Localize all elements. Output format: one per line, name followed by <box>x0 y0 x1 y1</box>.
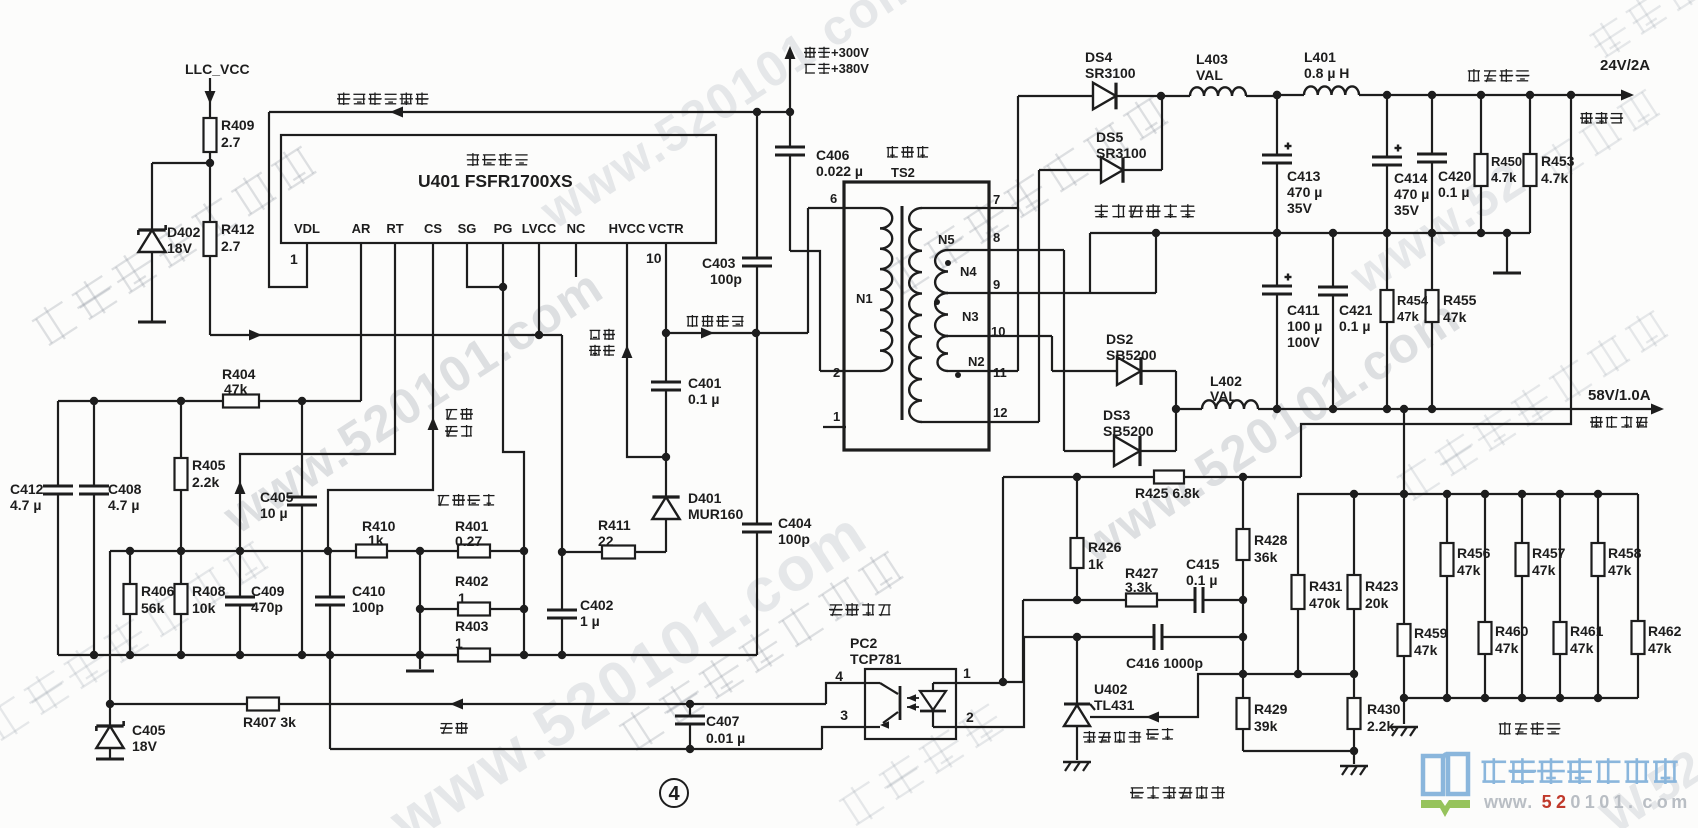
capacitor C403 <box>742 112 772 333</box>
svg-text:PG: PG <box>494 221 513 236</box>
label C416 1000p <box>1126 655 1203 671</box>
svg-text:100p: 100p <box>710 271 742 287</box>
label C415 0.1µ <box>1186 556 1220 588</box>
label N3 <box>934 299 979 324</box>
label 去主板 <box>1580 112 1623 124</box>
svg-text:N5: N5 <box>938 232 955 247</box>
wire 稳压 row to PC2 pin4 <box>826 683 865 704</box>
transformer secondary winding N5 <box>909 208 922 422</box>
node rail R403 left <box>416 651 424 659</box>
capacitor C416 <box>1154 624 1243 650</box>
svg-text:1: 1 <box>833 409 840 424</box>
node 58V R455 <box>1428 405 1436 413</box>
svg-text:R458: R458 <box>1608 545 1642 561</box>
svg-text:R407 3k: R407 3k <box>243 714 296 730</box>
svg-text:C412: C412 <box>10 481 44 497</box>
wire RT pin drop and loop <box>235 243 395 551</box>
label C420 0.1µ <box>1438 168 1472 200</box>
capacitor C412 <box>43 401 73 655</box>
arrow 58V output <box>1651 404 1664 415</box>
svg-text:0.1 µ: 0.1 µ <box>1186 572 1217 588</box>
svg-text:39k: 39k <box>1254 718 1278 734</box>
wire sense column to 稳压 row <box>109 551 111 704</box>
svg-text:DS5: DS5 <box>1096 129 1123 145</box>
diode DS3 <box>1064 436 1176 466</box>
wire 取样 row <box>1090 674 1354 722</box>
resistor R406 <box>124 551 137 655</box>
shunt regulator U402 TL431 <box>1064 637 1095 760</box>
node junction R409/R412/D402 <box>206 159 214 167</box>
resistor R426 <box>1071 477 1084 600</box>
svg-text:22: 22 <box>598 533 614 549</box>
node 58V C411 <box>1273 405 1281 413</box>
pin label 9 <box>993 277 1000 292</box>
label 待机+300V 开机+380V <box>804 45 869 76</box>
node R428 top <box>1239 473 1247 481</box>
wire R427 row left <box>1023 599 1126 601</box>
node grid bottom R458 <box>1594 694 1602 702</box>
pin label 10 <box>991 324 1005 339</box>
resistor R430 <box>1348 674 1361 751</box>
svg-text:0.27: 0.27 <box>455 533 482 549</box>
label R409 2.7 <box>221 117 255 150</box>
label 稳压光耦 <box>829 603 891 616</box>
wire mid rail left riser <box>1089 233 1091 293</box>
node mid rail C413 <box>1273 229 1281 237</box>
node C420 top <box>1428 91 1436 99</box>
capacitor C407 <box>675 704 705 749</box>
svg-text:R428: R428 <box>1254 532 1288 548</box>
svg-text:L401: L401 <box>1304 49 1336 65</box>
capacitor C405 10µ <box>287 401 317 655</box>
label 输出电路供电 <box>337 93 429 106</box>
node R404 row C408 <box>90 397 98 405</box>
node R404 row R405 <box>177 397 185 405</box>
svg-text:C402: C402 <box>580 597 614 613</box>
svg-text:470p: 470p <box>251 599 283 615</box>
label N1 <box>856 291 873 306</box>
ground below load grid <box>1390 698 1418 736</box>
svg-text:C405: C405 <box>260 489 294 505</box>
resistor R462 <box>1632 494 1645 698</box>
svg-text:R406: R406 <box>141 583 175 599</box>
wire R401 right link <box>490 550 524 552</box>
svg-text:TCP781: TCP781 <box>850 651 902 667</box>
label R426 1k <box>1088 539 1122 572</box>
svg-text:R456: R456 <box>1457 545 1491 561</box>
svg-text:C404: C404 <box>778 515 812 531</box>
svg-text:R457: R457 <box>1532 545 1566 561</box>
svg-text:10: 10 <box>646 250 662 266</box>
wire HVCC pin drop with 升压 arrow <box>622 243 666 457</box>
node row551 R406 <box>126 547 134 555</box>
node grid top R459 <box>1400 490 1408 498</box>
label R453 4.7k <box>1541 153 1575 186</box>
svg-text:C410: C410 <box>352 583 386 599</box>
label C409 470p <box>251 583 285 615</box>
svg-text:C401: C401 <box>688 375 722 391</box>
svg-text:R461: R461 <box>1570 623 1604 639</box>
svg-text:C413: C413 <box>1287 168 1321 184</box>
svg-text:DS2: DS2 <box>1106 331 1133 347</box>
wire bottom ground rail <box>58 654 757 656</box>
svg-text:100V: 100V <box>1287 334 1320 350</box>
node grid top R423 <box>1350 490 1358 498</box>
ground below TL431 <box>1063 762 1091 771</box>
label C404 100p <box>778 515 812 547</box>
svg-text:TS2: TS2 <box>891 165 915 180</box>
capacitor C411 electrolytic <box>1262 233 1292 409</box>
svg-text:R450: R450 <box>1491 154 1522 169</box>
label L401 0.8µH <box>1304 49 1349 81</box>
transformer secondary winding N2 <box>938 336 949 371</box>
wire SG pin drop <box>467 243 503 287</box>
label U401 FSFR1700XS <box>418 171 573 191</box>
svg-text:C407: C407 <box>706 713 740 729</box>
node C406 top junction <box>786 108 794 116</box>
svg-text:R455: R455 <box>1443 292 1477 308</box>
node L403-L401 junction <box>1273 91 1281 99</box>
node 取样 row R429 <box>1239 670 1247 678</box>
pin label 12 <box>993 405 1007 420</box>
pin label 11 <box>993 365 1007 380</box>
svg-text:0.8 µ H: 0.8 µ H <box>1304 65 1349 81</box>
svg-text:100p: 100p <box>778 531 810 547</box>
wire load grid bottom rail <box>1404 697 1638 699</box>
node 24V sense tap <box>1567 91 1575 99</box>
label 取样 <box>1146 728 1173 740</box>
svg-text:DS4: DS4 <box>1085 49 1112 65</box>
label R425 6.8k <box>1135 485 1200 501</box>
label R450 4.7k <box>1491 154 1522 185</box>
resistor R455 <box>1426 233 1439 409</box>
pin label 6 <box>830 191 837 206</box>
wire load grid top rail <box>1297 493 1638 495</box>
svg-text:N1: N1 <box>856 291 873 306</box>
label C414 470µ 35V <box>1394 170 1429 218</box>
label 稳压 <box>440 722 468 734</box>
node C415 right <box>1239 596 1247 604</box>
node 58V grid feed <box>1400 405 1408 413</box>
svg-text:24V/2A: 24V/2A <box>1600 57 1650 74</box>
transformer primary winding N1 <box>880 208 892 371</box>
wire VDL pin1 loop <box>269 112 307 287</box>
label R401 0.27 <box>455 518 489 549</box>
node mid rail C420/R455 <box>1428 229 1436 237</box>
node grid top R460 <box>1481 490 1489 498</box>
diode DS5 <box>1039 157 1162 183</box>
node R402 left <box>416 605 424 613</box>
wire PC2 pin1 to R425 row <box>956 477 1003 683</box>
wire AR pin drop <box>360 243 362 401</box>
wire C406 to pin2 <box>790 251 820 371</box>
resistor R428 <box>1237 477 1250 600</box>
svg-text:47k: 47k <box>1457 562 1481 578</box>
svg-text:R403: R403 <box>455 618 489 634</box>
label R404 47k <box>222 366 256 397</box>
svg-text:4.7 µ: 4.7 µ <box>10 497 41 513</box>
label 中点输出 <box>687 315 744 327</box>
svg-text:NC: NC <box>567 221 586 236</box>
wire PG pin drop <box>503 243 524 655</box>
wire DS4 feed riser <box>1017 96 1019 371</box>
wire R412 to LVCC row <box>210 330 562 341</box>
resistor R408 <box>175 551 188 655</box>
svg-text:100p: 100p <box>352 599 384 615</box>
node LVCC junction <box>535 331 543 339</box>
label R455 47k <box>1443 292 1477 325</box>
label C401 0.1µ <box>688 375 722 407</box>
wire VCTR pin drop <box>665 243 667 333</box>
wire R453 bottom corner <box>1529 186 1531 233</box>
transformer core line <box>901 206 904 420</box>
svg-text:D401: D401 <box>688 490 722 506</box>
transformer secondary winding N3 <box>935 293 948 336</box>
svg-text:+380V: +380V <box>831 61 869 76</box>
svg-text:47k: 47k <box>1495 640 1519 656</box>
capacitor C401 <box>651 333 681 457</box>
resistor R461 <box>1554 494 1567 698</box>
label 24V/2A <box>1600 57 1650 74</box>
zener diode D402 <box>138 225 165 322</box>
svg-text:C414: C414 <box>1394 170 1428 186</box>
label DS5 SR3100 <box>1096 129 1147 161</box>
node SG-PG junction <box>499 283 507 291</box>
pin labels U401 <box>294 221 684 236</box>
resistor R405 <box>175 401 188 551</box>
node C414 top <box>1383 91 1391 99</box>
svg-text:35V: 35V <box>1394 202 1420 218</box>
label R403 1 <box>455 618 489 651</box>
svg-text:C405: C405 <box>132 722 166 738</box>
node row551 R401 left <box>416 547 424 555</box>
label L402 VAL <box>1210 373 1242 404</box>
wire pin12 row <box>922 421 1039 423</box>
node 58V rail DS junction <box>1172 405 1180 413</box>
svg-text:R412: R412 <box>221 221 255 237</box>
svg-text:R404: R404 <box>222 366 256 382</box>
label R406 56k <box>141 583 175 616</box>
node row551 C410 <box>324 547 332 555</box>
svg-text:R405: R405 <box>192 457 226 473</box>
resistor R402 <box>420 603 524 616</box>
wire DS3 feed riser <box>1063 250 1065 451</box>
svg-text:VCTR: VCTR <box>648 221 684 236</box>
label C403 100p <box>702 255 742 287</box>
resistor R407 <box>247 698 279 711</box>
node grid top R458 <box>1594 490 1602 498</box>
label 厚膜电路 <box>467 153 528 166</box>
label R461 47k <box>1570 623 1604 656</box>
node row551 C409 <box>236 547 244 555</box>
svg-text:20k: 20k <box>1365 595 1389 611</box>
svg-text:LLC_VCC: LLC_VCC <box>185 61 250 77</box>
label U402 TL431 <box>1094 681 1135 713</box>
svg-text:2.2k: 2.2k <box>192 474 219 490</box>
wire DS5 feed riser <box>1038 170 1040 422</box>
svg-text:1: 1 <box>290 251 298 267</box>
label R462 47k <box>1648 623 1682 656</box>
node R402 right <box>520 605 528 613</box>
svg-text:7: 7 <box>993 192 1000 207</box>
resistor R410 <box>356 545 387 558</box>
diode D401 <box>652 457 679 552</box>
svg-text:C411: C411 <box>1287 302 1320 318</box>
resistor R409 <box>204 118 217 163</box>
resistor R431 <box>1292 494 1305 674</box>
svg-text:SB5200: SB5200 <box>1106 347 1157 363</box>
node pin1 junction <box>999 678 1007 686</box>
node rail C405 <box>298 651 306 659</box>
svg-text:SR3100: SR3100 <box>1085 65 1136 81</box>
svg-text:4.7 µ: 4.7 µ <box>108 497 139 513</box>
ground below R429/R430 <box>1340 751 1368 775</box>
label R430 2.2k <box>1367 701 1401 734</box>
node mid rail ground stub <box>1503 229 1511 237</box>
svg-text:D402: D402 <box>167 224 201 240</box>
svg-text:4: 4 <box>668 783 680 805</box>
svg-text:L403: L403 <box>1196 51 1228 67</box>
svg-text:18V: 18V <box>132 738 158 754</box>
ground below zener <box>96 758 124 761</box>
node grid top R457 <box>1518 490 1526 498</box>
label 升压供电 <box>589 329 615 356</box>
label R402 1 <box>455 573 489 606</box>
wire pin11 row <box>948 370 1018 372</box>
svg-text:R411: R411 <box>598 517 631 533</box>
svg-text:1: 1 <box>455 635 463 651</box>
svg-text:4: 4 <box>835 668 843 684</box>
svg-text:R431: R431 <box>1309 578 1343 594</box>
wire return row to PC2 pin3 <box>822 727 865 749</box>
label R412 2.7 <box>221 221 255 254</box>
ground below R403 column <box>406 655 434 671</box>
node rail C409 <box>236 651 244 659</box>
svg-text:C409: C409 <box>251 583 285 599</box>
wire 稳压 row <box>110 699 826 710</box>
node R426 bottom <box>1073 596 1081 604</box>
svg-text:8: 8 <box>993 230 1000 245</box>
svg-text:C420: C420 <box>1438 168 1472 184</box>
svg-text:2: 2 <box>966 709 974 725</box>
node row551 R401 right <box>520 547 528 555</box>
label DS2 SB5200 <box>1106 331 1157 363</box>
svg-text:VDL: VDL <box>294 221 320 236</box>
node grid bottom left <box>1400 694 1408 702</box>
resistor R453 <box>1524 95 1537 186</box>
pin label 8 <box>993 230 1000 245</box>
svg-text:C421: C421 <box>1339 302 1373 318</box>
transformer secondary winding N4 <box>935 250 948 293</box>
label R456 47k <box>1457 545 1491 578</box>
svg-text:R429: R429 <box>1254 701 1288 717</box>
label C413 470µ 35V <box>1287 168 1322 216</box>
resistor R401 <box>458 545 490 558</box>
node VCTR 中点输出 junction <box>662 329 670 337</box>
label 误差放大 <box>1083 731 1141 743</box>
svg-text:3: 3 <box>840 707 848 723</box>
label R427 3.3k <box>1125 565 1159 595</box>
node DS4-DS5 junction <box>1157 92 1165 100</box>
svg-text:N4: N4 <box>960 264 977 279</box>
ground stub on mid rail <box>1493 233 1521 273</box>
svg-text:0.1 µ: 0.1 µ <box>1438 184 1469 200</box>
label N5 <box>938 232 955 247</box>
zener diode C405 18V <box>96 704 123 758</box>
svg-text:4.7k: 4.7k <box>1541 170 1568 186</box>
svg-text:U402: U402 <box>1094 681 1128 697</box>
node mid rail C414/R454 <box>1383 229 1391 237</box>
node rail C410 <box>326 651 334 659</box>
svg-text:U401 FSFR1700XS: U401 FSFR1700XS <box>418 171 573 191</box>
capacitor C404 <box>742 333 772 655</box>
svg-text:R402: R402 <box>455 573 489 589</box>
capacitor C421 <box>1318 233 1348 409</box>
pin label 1 <box>833 409 840 424</box>
label R407 3k <box>243 714 296 730</box>
node C403 junction on 中点输出 <box>752 329 760 337</box>
svg-text:47k: 47k <box>224 381 248 397</box>
diode DS4 <box>1018 83 1161 110</box>
node R430 bottom <box>1350 747 1358 755</box>
svg-text:1k: 1k <box>368 532 384 548</box>
svg-text:10k: 10k <box>192 600 216 616</box>
node grid bottom R460 <box>1481 694 1489 702</box>
label D401 MUR160 <box>688 490 743 522</box>
svg-text:2: 2 <box>833 365 840 380</box>
label 去背光灯 <box>1590 416 1648 428</box>
svg-text:2.2k: 2.2k <box>1367 718 1394 734</box>
label C407 0.01µ <box>706 713 745 746</box>
wire pin2 stub <box>820 370 880 372</box>
wire CS pin drop 过流保护 <box>328 243 438 551</box>
svg-text:1: 1 <box>458 590 466 606</box>
LED inside PC2 <box>907 683 956 727</box>
wire DS2 feed riser <box>1051 336 1053 371</box>
node R411 left C402 <box>558 548 566 556</box>
svg-text:10: 10 <box>991 324 1005 339</box>
label R411 22 <box>598 517 631 549</box>
svg-text:12: 12 <box>993 405 1007 420</box>
wire R425 row <box>1003 476 1154 478</box>
wire R404 row <box>58 400 361 402</box>
node rail C402 <box>558 651 566 659</box>
label 负载电阻 top <box>1468 69 1530 82</box>
label N2 <box>955 354 985 378</box>
logo 家电维修资料网 website <box>1421 754 1687 817</box>
node mid rail C421 <box>1329 229 1337 237</box>
node row551 R405/R408 <box>177 547 185 555</box>
label C421 0.1µ <box>1339 302 1373 334</box>
svg-text:R426: R426 <box>1088 539 1122 555</box>
pin number 1 <box>290 251 298 267</box>
capacitor C420 <box>1417 95 1447 233</box>
pin number 10 <box>646 250 662 266</box>
wire pin9 to mid rail riser <box>1152 229 1160 293</box>
op-amp U401 FSFR1700XS IC box <box>281 135 716 243</box>
node 取样 row R423 <box>1350 670 1358 678</box>
svg-text:R462: R462 <box>1648 623 1682 639</box>
label R405 2.2k <box>192 457 226 490</box>
svg-text:0.022 µ: 0.022 µ <box>816 163 863 179</box>
svg-text:47k: 47k <box>1443 309 1467 325</box>
wire DS2/DS3 join riser <box>1175 371 1177 451</box>
node C413 top <box>1273 91 1281 99</box>
label C402 1µ <box>580 597 614 629</box>
svg-text:470 µ: 470 µ <box>1394 186 1429 202</box>
svg-text:47k: 47k <box>1608 562 1632 578</box>
svg-text:VAL: VAL <box>1196 67 1223 83</box>
